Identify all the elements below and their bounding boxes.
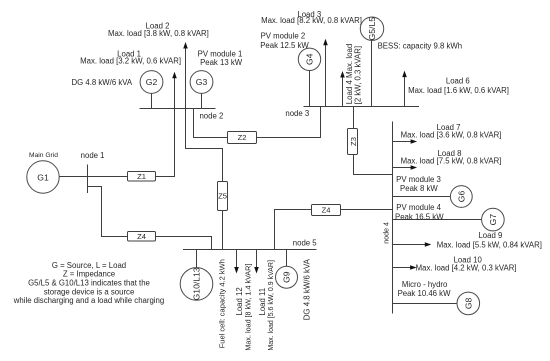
load 11 arrow bbox=[254, 250, 259, 274]
generator G4 (PV module 2) bbox=[298, 48, 320, 106]
load 3 arrow bbox=[323, 39, 328, 107]
svg-text:Z3: Z3 bbox=[349, 137, 358, 146]
svg-text:while discharging and a load w: while discharging and a load while charg… bbox=[13, 296, 164, 305]
generator G1 (Main Grid) bbox=[27, 161, 59, 193]
svg-text:node 1: node 1 bbox=[81, 151, 105, 160]
svg-text:Peak 8 kW: Peak 8 kW bbox=[400, 184, 438, 193]
svg-text:Max. load [8.2 kW, 0.8 kVAR]: Max. load [8.2 kW, 0.8 kVAR] bbox=[261, 16, 362, 25]
wire node 2 to Z2 bbox=[194, 109, 228, 138]
load 2 arrow bbox=[183, 42, 188, 109]
svg-text:Max. load [7.5 kW, 0.8 kVAR]: Max. load [7.5 kW, 0.8 kVAR] bbox=[401, 156, 502, 165]
svg-text:G5/L5: G5/L5 bbox=[367, 17, 377, 41]
svg-text:Peak 13 kW: Peak 13 kW bbox=[200, 58, 243, 67]
svg-text:PV module 3: PV module 3 bbox=[396, 175, 441, 184]
load 1 arrow bbox=[172, 72, 177, 109]
svg-text:Micro - hydro: Micro - hydro bbox=[402, 280, 448, 289]
svg-text:DG 4.8 kW/6 kVA: DG 4.8 kW/6 kVA bbox=[72, 78, 133, 87]
svg-text:Max. load [3.8 kW, 0.8 kVAR]: Max. load [3.8 kW, 0.8 kVAR] bbox=[108, 29, 209, 38]
impedance Z1 bbox=[128, 172, 156, 182]
svg-text:Max. load [5.5 kW, 0.84 kVAR]: Max. load [5.5 kW, 0.84 kVAR] bbox=[437, 240, 542, 249]
load 7 arrow bbox=[393, 139, 418, 144]
wire node 3 to Z3 bbox=[353, 107, 355, 129]
svg-text:Max. load [3.6 kW, 0.8 kVAR]: Max. load [3.6 kW, 0.8 kVAR] bbox=[401, 131, 502, 140]
svg-text:G9: G9 bbox=[282, 271, 292, 283]
svg-text:PV module 2: PV module 2 bbox=[261, 31, 306, 40]
svg-text:node 5: node 5 bbox=[293, 239, 318, 248]
generator G3 (PV module 1) bbox=[190, 71, 213, 109]
impedance Z3 bbox=[348, 129, 359, 155]
node 4 bus bbox=[382, 122, 392, 314]
svg-text:Z5: Z5 bbox=[218, 192, 227, 201]
wire Z3 to node 4 bbox=[354, 155, 393, 175]
svg-text:G4: G4 bbox=[304, 53, 314, 65]
svg-text:G = Source, L = Load: G = Source, L = Load bbox=[52, 261, 126, 270]
svg-text:G7: G7 bbox=[488, 214, 498, 226]
svg-text:Load 6: Load 6 bbox=[446, 77, 470, 86]
svg-text:Peak 12.5 kW: Peak 12.5 kW bbox=[260, 41, 309, 50]
load 9 arrow bbox=[393, 242, 432, 247]
wire Z5 to node 5 bbox=[222, 211, 224, 250]
load 12 arrow bbox=[234, 250, 239, 274]
svg-text:Max. load [1.6 kW, 0.6 kVAR]: Max. load [1.6 kW, 0.6 kVAR] bbox=[408, 86, 509, 95]
storage G10/L13 (Fuel cell) bbox=[180, 250, 213, 301]
wire node 2 to Z5 bbox=[186, 109, 223, 182]
wire Z1 to node 2 bbox=[156, 109, 175, 177]
svg-text:PV module 1: PV module 1 bbox=[198, 49, 243, 58]
svg-text:Max. load [8 kW, 1.4 kVAR]: Max. load [8 kW, 1.4 kVAR] bbox=[243, 264, 252, 351]
wire G1 to Z1 bbox=[59, 176, 127, 178]
generator G6 (PV module 3) bbox=[393, 186, 473, 208]
svg-text:Fuel cell: capacity 4.2 kWh: Fuel cell: capacity 4.2 kWh bbox=[217, 259, 226, 348]
svg-text:PV module 4: PV module 4 bbox=[396, 203, 441, 212]
wire Z4 to node 5 bbox=[275, 210, 312, 250]
svg-text:G5/L5 & G10/L13 indicates that: G5/L5 & G10/L13 indicates that the bbox=[28, 279, 150, 288]
wire Z4 to node 4 bbox=[341, 209, 393, 211]
svg-text:Z1: Z1 bbox=[137, 172, 146, 181]
svg-text:Max. load [4.2 kW, 0.3 kVAR]: Max. load [4.2 kW, 0.3 kVAR] bbox=[416, 264, 517, 273]
svg-text:G8: G8 bbox=[463, 297, 473, 309]
svg-text:G6: G6 bbox=[456, 191, 466, 203]
legend text bbox=[13, 261, 164, 305]
load 6 arrow bbox=[402, 71, 407, 107]
svg-text:Load 9: Load 9 bbox=[478, 231, 502, 240]
wire Z4 to node 5 bus bbox=[156, 237, 212, 250]
svg-text:BESS: capacity 9.8 kWh: BESS: capacity 9.8 kWh bbox=[378, 41, 463, 50]
svg-text:node 2: node 2 bbox=[199, 112, 223, 121]
svg-text:G1: G1 bbox=[37, 172, 49, 182]
storage G5/L5 (BESS) bbox=[360, 17, 383, 107]
node 3 bus bbox=[285, 107, 419, 119]
svg-text:Max. load [5.6 kW, 0.9 kVAR]: Max. load [5.6 kW, 0.9 kVAR] bbox=[268, 260, 275, 351]
svg-text:Z = Impedance: Z = Impedance bbox=[63, 270, 115, 279]
svg-text:G2: G2 bbox=[146, 77, 158, 87]
impedance Z4 (node1-node5) bbox=[128, 232, 156, 242]
svg-text:node 4: node 4 bbox=[382, 222, 390, 244]
generator G2 (DG) bbox=[140, 71, 163, 109]
svg-text:G10/L13: G10/L13 bbox=[192, 267, 202, 300]
svg-text:Peak 16.5 kW: Peak 16.5 kW bbox=[395, 212, 444, 221]
svg-text:Z4: Z4 bbox=[322, 206, 331, 215]
generator G9 (DG) bbox=[276, 250, 298, 289]
impedance Z4 (node4-node5) bbox=[312, 205, 341, 216]
impedance Z2 bbox=[228, 132, 257, 144]
svg-text:node 3: node 3 bbox=[285, 109, 309, 118]
svg-text:Main Grid: Main Grid bbox=[29, 152, 58, 159]
svg-text:Peak 10.46 kW: Peak 10.46 kW bbox=[398, 289, 452, 298]
svg-text:Z4: Z4 bbox=[137, 232, 146, 241]
svg-text:Load 11: Load 11 bbox=[258, 288, 267, 316]
wire Z2 to node 3 bbox=[257, 107, 321, 138]
wire node 1 to Z4 bbox=[88, 187, 128, 237]
node 5 bus bbox=[183, 239, 317, 250]
svg-text:G3: G3 bbox=[196, 77, 208, 87]
load 4 arrow bbox=[340, 71, 345, 107]
impedance Z5 bbox=[218, 182, 228, 211]
node 2 bus bbox=[140, 109, 224, 121]
generator G8 (Micro-hydro) bbox=[393, 292, 480, 315]
svg-text:DG 4.8 kW/6 kVA: DG 4.8 kW/6 kVA bbox=[302, 258, 311, 320]
node 1 bbox=[81, 151, 105, 193]
generator G7 (PV module 4) bbox=[393, 208, 505, 231]
svg-text:Z2: Z2 bbox=[238, 133, 247, 142]
svg-text:Max. load [3.2 kW, 0.6 kVAR]: Max. load [3.2 kW, 0.6 kVAR] bbox=[80, 57, 181, 66]
svg-text:[2 kW, 0.3 kVAR]: [2 kW, 0.3 kVAR] bbox=[353, 46, 362, 104]
svg-text:storage device is a source: storage device is a source bbox=[44, 287, 135, 296]
load 10 arrow bbox=[393, 265, 417, 270]
load 8 arrow bbox=[393, 165, 418, 170]
